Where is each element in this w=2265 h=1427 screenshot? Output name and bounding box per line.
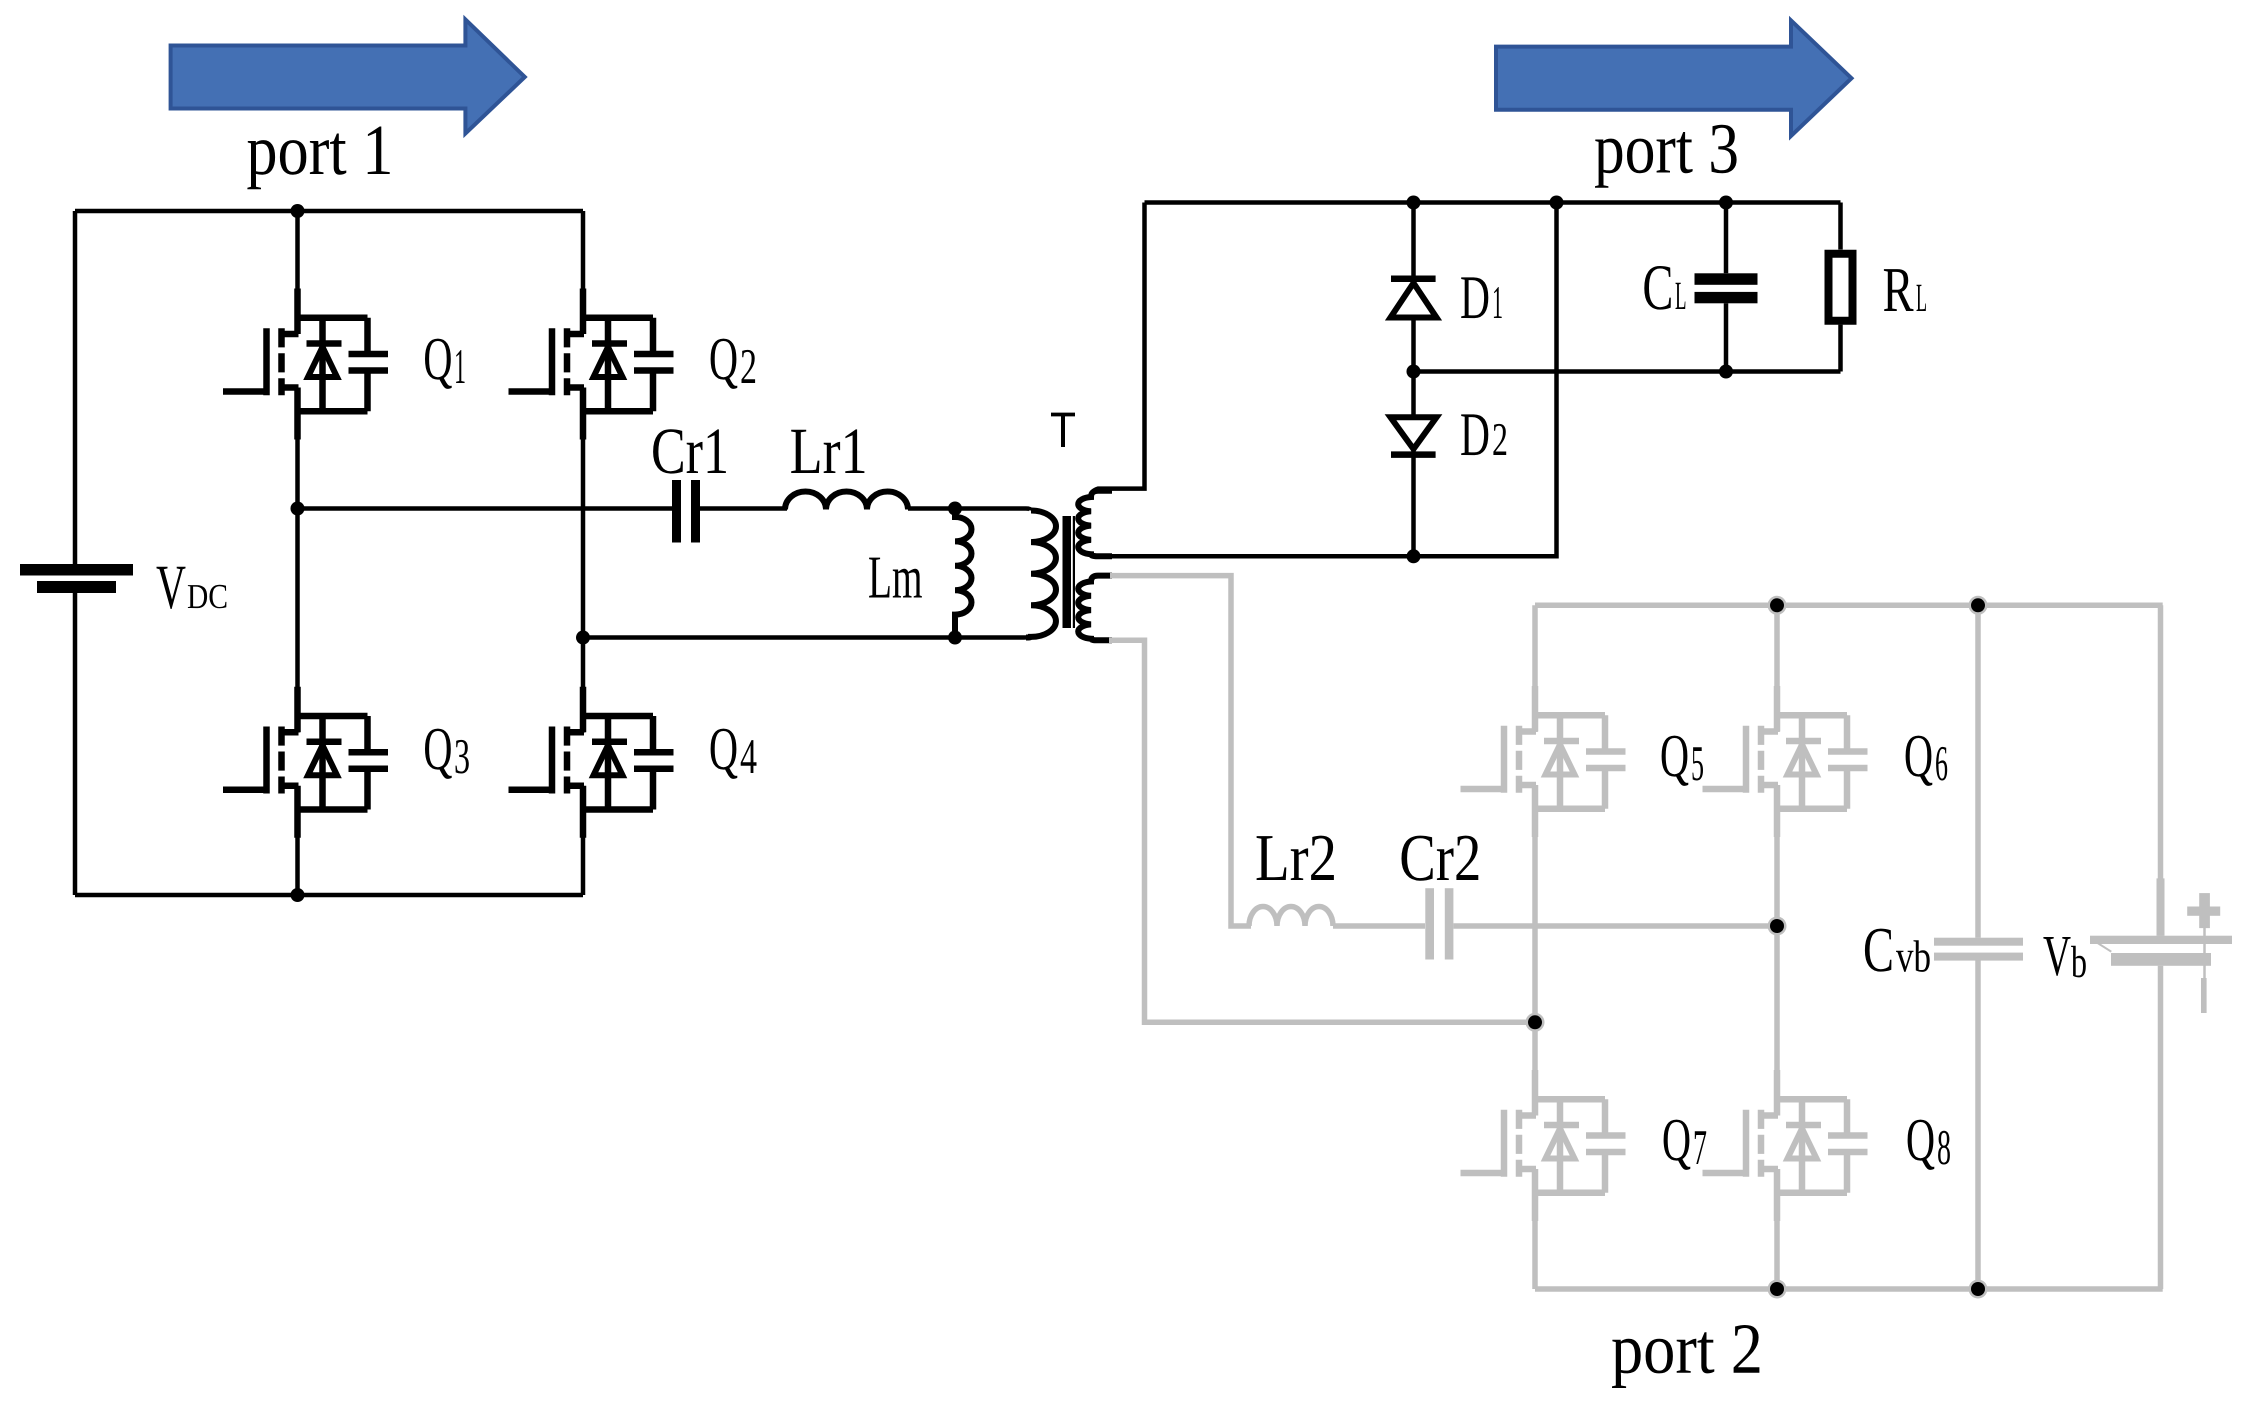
wire: port3 top rail [1145,200,1841,205]
node: Lm top tap [948,502,962,516]
wire: secondary2 top lead to Lr2 (gray) [1110,576,1251,926]
label Q4 [711,729,738,779]
transistor Q4 [509,687,674,838]
battery VDC [20,564,133,593]
node: port2 bottom rail / Cvb [1969,1280,1988,1299]
wire: port2 top rail [1535,603,2163,609]
transistor Q1 [223,289,388,440]
label Q7 [1664,1120,1691,1170]
wire: D1 branch upper [1411,203,1416,277]
node: Q5-Q7 midpoint [1526,1013,1545,1032]
node: Lm bottom tap [948,631,962,645]
node: mid rail / D1-D2 junction [1407,365,1421,379]
transformer T secondary winding 1 (top) + leads to rectifier [1078,203,1556,557]
diode D2 [1411,372,1416,418]
wire: Cvb branch vertical [1975,605,1981,1289]
wire: port1 bottom rail [75,893,583,898]
node: Q1-Q3 midpoint [291,502,305,516]
node: top rail / CL [1719,196,1733,210]
label D1 [1461,277,1488,318]
transistor Q2 [509,289,674,440]
node: Cr2 wire / Q6-Q8 midpoint [1768,917,1787,936]
wire: rectifier mid rail (D1/D2 junction to CL/RL bottoms) [1414,369,1841,374]
wire: bridge1 lower output to transformer primary (bottom) [583,636,1031,638]
transformer T core [1063,516,1072,628]
label Q5 [1662,736,1689,786]
node: port2 bottom rail / Q8 [1768,1280,1787,1299]
node: top rail / secondary return [1550,196,1564,210]
label VDC [157,567,186,609]
label Cvb [1865,929,1892,972]
capacitor CL [1695,273,1758,285]
node: mid rail / CL bottom [1719,365,1733,379]
label D2 [1461,414,1488,455]
capacitor Cvb [1934,938,2023,946]
wire: port1 left vertical (VDC branch) [73,211,78,895]
battery Vb [2090,893,2232,1013]
wire: bridge1 mid output to Cr1 [298,506,673,511]
transistor Q7 [1461,1070,1626,1221]
wire: Vb branch vertical [2158,605,2164,1289]
label Cr1 [653,429,726,473]
transistor Q6 [1703,686,1868,837]
label CL [1644,266,1671,310]
wire: secondary2 bottom lead to Q5/Q7 midpoint (gray) [1109,640,1535,1022]
port 3 arrow [1496,20,1852,136]
node: port2 top rail / Cvb [1969,596,1988,615]
transistor Q8 [1703,1070,1868,1221]
node: top rail / Q1 drain [291,204,305,218]
node: bottom rail / Q3 source [291,888,305,902]
diode D1 [1391,275,1436,282]
resistor RL [1829,254,1853,321]
wire: port1 top rail [75,209,583,214]
label Cr2 [1402,836,1479,881]
wire: Lr1 to transformer primary (top) [908,509,1031,511]
label Q1 [425,339,452,389]
label Lr2 [1257,836,1334,880]
transformer T secondary winding 2 (bottom) [1078,576,1112,641]
label Q6 [1906,736,1933,786]
label RL [1884,269,1914,311]
node: top rail / D1 [1407,196,1421,210]
transistor Q3 [223,687,388,838]
inductor Lr1 [785,492,908,510]
capacitor CL branch [1724,203,1729,372]
transistor Q5 [1461,686,1626,837]
label Vb [2043,937,2070,976]
transformer T primary winding [1026,511,1056,638]
label Lm [869,558,922,598]
wire: Q5/Q7 leg vertical [1532,605,1538,1289]
node: Q2-Q4 midpoint [576,631,590,645]
wire: port2 bottom rail [1535,1286,2163,1292]
port 1 arrow [171,20,525,134]
inductor Lr2 [1249,907,1333,927]
label Q2 [711,339,738,389]
wire: Q2/Q4 leg vertical [581,211,586,895]
capacitor Cr1 [672,480,681,543]
label T [1051,413,1075,447]
label port 2 [1612,1325,1759,1388]
label Q8 [1908,1120,1935,1170]
wire: Q1/Q3 leg vertical [295,211,300,895]
resistor RL branch [1838,203,1843,372]
label Lr1 [791,429,864,473]
wire: Q6/Q8 leg vertical [1774,605,1780,1289]
capacitor Cr2 [1425,888,1434,959]
wire: Cr1 to Lr1 [700,506,787,511]
node: port2 top rail / Q6 [1768,596,1787,615]
node: secondary1 bottom wire / D2 cathode [1407,549,1421,563]
wire: Cr2 to Q6/Q8 midpoint [1454,923,1778,929]
inductor Lm [955,509,971,638]
label Q3 [425,729,452,779]
label port 1 [247,127,389,190]
wire: Lr2 to Cr2 [1333,923,1425,929]
label port 3 [1595,125,1737,188]
